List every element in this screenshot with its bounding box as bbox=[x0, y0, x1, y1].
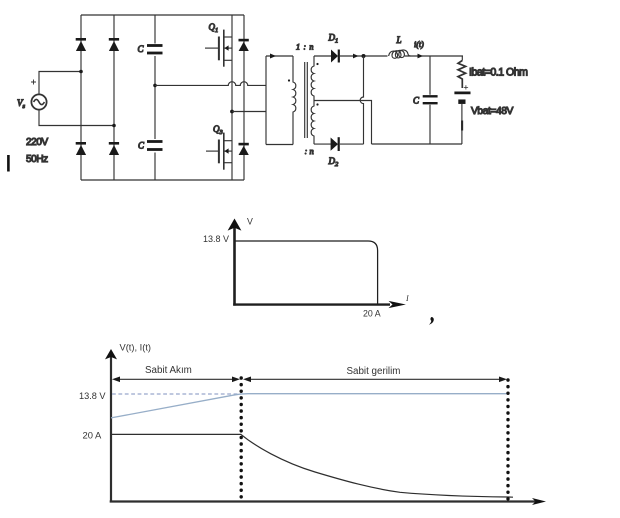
axis I (horizontal) bbox=[233, 303, 390, 305]
arrow span Sabit Akim bbox=[112, 377, 240, 383]
node secondary polarity dot lower bbox=[316, 103, 318, 105]
axis t (horizontal) bbox=[110, 500, 536, 502]
diode bridge bottom-left bbox=[76, 142, 86, 155]
svg-text:220V: 220V bbox=[26, 137, 48, 148]
diode body Q3 bbox=[239, 143, 249, 155]
svg-text:50Hz: 50Hz bbox=[26, 154, 48, 165]
capacitor C upper bbox=[147, 46, 163, 54]
wire L to load bbox=[405, 55, 463, 57]
svg-text:13.8 V: 13.8 V bbox=[79, 391, 106, 401]
svg-text:Ibat=0.1 Ohm: Ibat=0.1 Ohm bbox=[469, 67, 528, 79]
node secondary polarity dot upper bbox=[316, 63, 318, 65]
wire stray mark left edge bbox=[7, 155, 10, 172]
svg-text:20 A: 20 A bbox=[363, 309, 381, 319]
wire source top bbox=[39, 72, 81, 95]
svg-text:D1: D1 bbox=[328, 32, 339, 44]
inductor secondary winding lower bbox=[311, 101, 314, 145]
node junction dot leg2 bbox=[112, 124, 116, 128]
capacitor C lower bbox=[147, 142, 163, 150]
svg-text:13.8 V: 13.8 V bbox=[203, 234, 229, 244]
wire mosfet column bbox=[231, 15, 233, 180]
diode D1 bbox=[331, 50, 340, 63]
wire D1 to node bbox=[340, 55, 388, 57]
wire source bottom bbox=[39, 110, 114, 126]
battery Vbat plus sign bbox=[464, 85, 468, 89]
svg-text:D2: D2 bbox=[328, 156, 340, 168]
wire bus to primary bottom bbox=[266, 144, 293, 146]
transistor Q3 bbox=[206, 133, 232, 170]
diode D2 bbox=[331, 137, 340, 151]
wire output return rail bbox=[372, 143, 463, 145]
wire D2 to column bbox=[340, 143, 364, 145]
svg-text:Q3: Q3 bbox=[213, 124, 224, 136]
node junction dot left top bbox=[79, 70, 83, 74]
svg-text:i(t): i(t) bbox=[414, 40, 424, 49]
transformer core bbox=[305, 62, 308, 138]
curve V-I characteristic bbox=[235, 241, 378, 304]
wire capacitor column bbox=[154, 15, 156, 180]
diode bridge top-left bbox=[76, 38, 86, 51]
svg-text:C: C bbox=[138, 141, 145, 151]
capacitor C output bbox=[423, 96, 438, 103]
curve current (black) bbox=[111, 434, 513, 497]
svg-text:V: V bbox=[247, 217, 253, 227]
svg-text:V(t), I(t): V(t), I(t) bbox=[120, 343, 152, 353]
diode bridge top-right bbox=[109, 38, 119, 51]
node half-bridge midpoint dot bbox=[230, 110, 234, 114]
wire half-bridge midpoint to transformer bbox=[232, 111, 266, 113]
svg-text:Vs: Vs bbox=[17, 98, 26, 110]
svg-text:I: I bbox=[405, 294, 409, 303]
arrow after D1 bbox=[353, 54, 359, 59]
arrow span Sabit gerilim bbox=[243, 377, 507, 383]
node rectifier output dot bbox=[362, 54, 366, 58]
wire bus to primary top bbox=[266, 55, 293, 57]
arrow i(t) bbox=[418, 54, 424, 59]
axis V (vertical) bbox=[233, 227, 236, 306]
axis V(t),I(t) (vertical) bbox=[110, 356, 112, 503]
svg-text:1 : n: 1 : n bbox=[296, 42, 314, 51]
battery Vbat bbox=[454, 93, 470, 102]
source Vs bbox=[31, 80, 47, 110]
svg-text:Q1: Q1 bbox=[209, 22, 219, 34]
svg-text:C: C bbox=[413, 96, 420, 106]
svg-text:Vbat=48V: Vbat=48V bbox=[471, 106, 513, 117]
wire bridge leg 2 bbox=[113, 15, 115, 180]
svg-text:20 A: 20 A bbox=[83, 430, 103, 441]
line dotted boundary 1 bbox=[239, 378, 242, 502]
svg-text:Sabit Akım: Sabit Akım bbox=[145, 365, 192, 376]
wire transformer input bus bbox=[265, 56, 267, 145]
wire secondary top to D1 bbox=[314, 55, 331, 57]
line dotted boundary 2 bbox=[506, 380, 509, 502]
node primary polarity dot bbox=[288, 79, 290, 81]
curve voltage (blue) bbox=[111, 394, 508, 418]
comma separator bbox=[429, 317, 434, 325]
wire centre tap bbox=[314, 101, 372, 145]
inductor secondary winding upper bbox=[311, 56, 314, 101]
resistor Ibat bbox=[458, 61, 466, 89]
diode bridge bottom-right bbox=[109, 142, 119, 155]
wire load branch bbox=[461, 56, 463, 144]
inductor L bbox=[389, 50, 411, 58]
wire battery lead retrace mark bbox=[461, 121, 463, 131]
wire capacitor midpoint to transformer (with hops) bbox=[155, 82, 266, 86]
svg-text:Sabit gerilim: Sabit gerilim bbox=[347, 366, 401, 377]
wire body-diode column bbox=[243, 15, 245, 180]
wire D2 column (with hop over centre tap) bbox=[360, 56, 363, 144]
wire output capacitor branch bbox=[429, 56, 431, 144]
diode body Q1 bbox=[239, 39, 249, 51]
line 13.8V dashed level bbox=[112, 393, 241, 395]
wire secondary bottom to D2 bbox=[314, 143, 331, 145]
wire bottom rail bbox=[81, 179, 244, 181]
svg-text:: n: : n bbox=[305, 146, 314, 156]
transistor Q1 bbox=[205, 30, 232, 67]
wire top rail bbox=[81, 14, 244, 16]
node capacitor midpoint dot bbox=[153, 84, 157, 88]
svg-text:L: L bbox=[396, 35, 402, 45]
svg-text:C: C bbox=[138, 44, 145, 54]
arrow on primary top wire bbox=[270, 54, 276, 59]
wire bridge leg 1 bbox=[80, 15, 82, 180]
inductor primary winding bbox=[293, 56, 296, 145]
